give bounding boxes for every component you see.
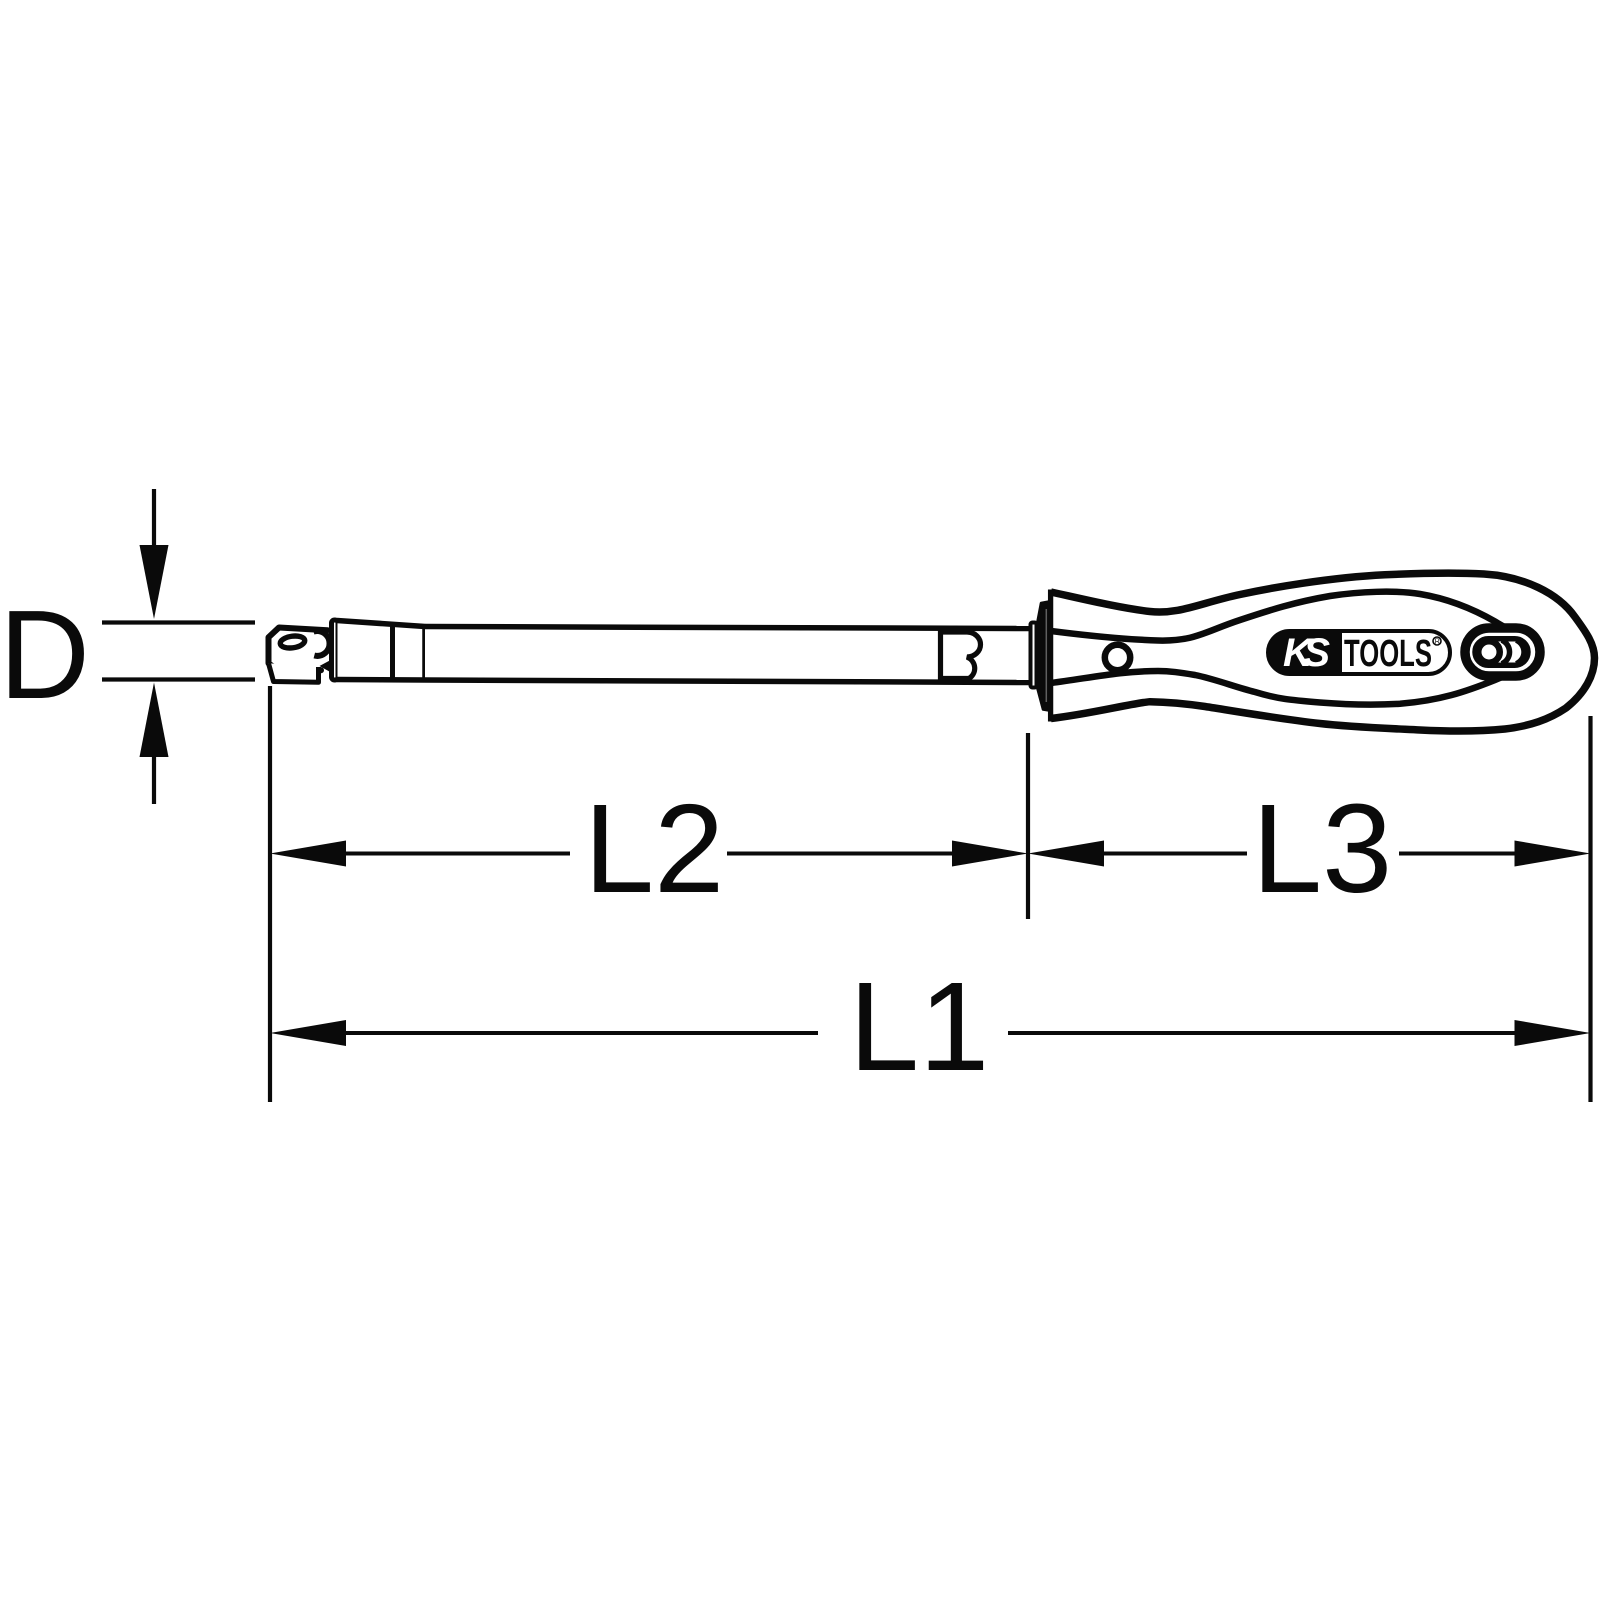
sleeve body [338, 621, 426, 681]
dimension L2 arrow left [270, 841, 346, 867]
dimension L1 line right [1008, 1031, 1517, 1035]
cap icon outer stadium [1465, 628, 1540, 676]
cap icon inner stadium [1475, 639, 1528, 666]
svg-text:R: R [1435, 639, 1440, 646]
handle inner contour [1051, 592, 1530, 705]
dimension L1 arrow left [270, 1020, 346, 1046]
KS TOOLS logo pill [1268, 631, 1450, 674]
arrow down for D dimension [140, 489, 169, 619]
sleeve ring 1 [390, 625, 395, 680]
extension line D bottom [102, 677, 255, 681]
dimension L1 line left [344, 1031, 818, 1035]
B marking on shaft [941, 630, 981, 681]
neck hole [1105, 645, 1130, 670]
extension line left (x=270) [268, 686, 272, 1102]
svg-text:TOOLS: TOOLS [1344, 633, 1432, 675]
tip lower facet [269, 663, 319, 682]
dimension L2 line left [344, 852, 570, 856]
svg-text:D: D [0, 584, 90, 725]
arrow up for D dimension [140, 683, 169, 805]
dimension L3 line right [1399, 852, 1517, 856]
collar [1037, 602, 1049, 711]
logo black segment [1268, 631, 1342, 674]
svg-text:L3: L3 [1252, 778, 1392, 919]
cap icon arc 2 [1516, 640, 1524, 664]
ball transition arc [314, 631, 330, 656]
dimension L3 arrow right [1515, 841, 1591, 867]
step ring [1031, 623, 1037, 688]
sleeve ring 2 [422, 627, 427, 681]
extension line right (x=1590.5) [1588, 716, 1592, 1102]
detent hole [280, 635, 306, 650]
wedge [320, 659, 333, 673]
cap icon circle [1478, 641, 1500, 663]
dimension L2 arrow right [952, 841, 1028, 867]
shaft [425, 627, 1030, 683]
logo registered mark [1433, 637, 1441, 645]
svg-text:KS: KS [1283, 631, 1330, 675]
svg-text:L2: L2 [584, 778, 724, 919]
dimension L3 arrow left [1028, 841, 1104, 867]
svg-text:L1: L1 [849, 956, 989, 1097]
square drive tip [269, 628, 328, 671]
cap icon arc 1 [1502, 640, 1510, 664]
extension line D top [102, 620, 255, 624]
sleeve lip [332, 620, 339, 680]
extension line middle (x=1028) [1026, 733, 1030, 919]
handle left face [1048, 590, 1053, 722]
handle outer outline [1051, 573, 1595, 731]
dimension L1 arrow right [1515, 1020, 1591, 1046]
dimension L2 line right [727, 852, 954, 856]
dimension L3 line left [1102, 852, 1247, 856]
